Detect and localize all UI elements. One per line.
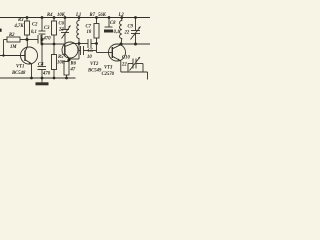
- resistor R2: [3, 40, 5, 56]
- wire top supply rail: [0, 17, 150, 19]
- resistor R5: [53, 44, 55, 55]
- capacitor C7: [87, 39, 89, 48]
- svg-text:56K: 56K: [98, 13, 107, 18]
- svg-text:4,7K: 4,7K: [14, 24, 25, 29]
- svg-text:10: 10: [87, 30, 92, 35]
- resistor R7: [96, 18, 98, 24]
- svg-text:R2: R2: [9, 33, 15, 38]
- svg-text:C2: C2: [32, 23, 38, 28]
- capacitor C3: [41, 18, 43, 32]
- svg-text:L2: L2: [118, 13, 125, 18]
- svg-text:R6: R6: [71, 62, 77, 67]
- wire VT2 collector line: [73, 43, 88, 45]
- resistor R4: [53, 18, 55, 22]
- edge text tick: [0, 29, 2, 32]
- svg-text:C2570: C2570: [102, 72, 115, 77]
- capacitor C5: [79, 50, 81, 52]
- svg-text:0,1: 0,1: [31, 30, 37, 35]
- trimmer capacitor C9: [135, 18, 137, 31]
- trimmer capacitor C6: [64, 18, 66, 30]
- svg-text:BC548: BC548: [11, 71, 26, 76]
- inductor L2: [120, 18, 122, 45]
- svg-text:BC549: BC549: [87, 68, 102, 73]
- resistor R6: [67, 60, 70, 61]
- svg-text:10: 10: [87, 55, 92, 60]
- svg-text:47: 47: [70, 68, 76, 73]
- wire VT3 emitter to output corner: [121, 71, 148, 73]
- svg-text:C7: C7: [86, 25, 92, 30]
- svg-text:L1: L1: [75, 13, 81, 18]
- wire R7/C7/C5 node to VT3 base: [96, 44, 98, 53]
- svg-text:C9: C9: [128, 25, 134, 30]
- svg-text:R4: R4: [47, 13, 53, 18]
- svg-text:0,1: 0,1: [114, 30, 120, 35]
- wire VT2 base line: [42, 43, 65, 45]
- capacitor C4: [38, 66, 47, 68]
- svg-text:VT2: VT2: [90, 62, 99, 67]
- transistor VT2: [62, 42, 78, 58]
- inductor L1: [77, 18, 79, 44]
- svg-text:C6: C6: [59, 22, 65, 27]
- svg-text:C4: C4: [38, 63, 44, 68]
- svg-text:C5: C5: [88, 49, 94, 54]
- svg-text:22: 22: [121, 63, 127, 68]
- trimmer capacitor C10: [128, 63, 133, 65]
- svg-text:470: 470: [42, 72, 51, 77]
- capacitor C8 with ground: [108, 18, 110, 28]
- svg-text:VT1: VT1: [16, 65, 24, 70]
- svg-text:22: 22: [124, 31, 130, 36]
- transistor VT1: [21, 47, 38, 64]
- svg-text:10K: 10K: [57, 61, 66, 66]
- wire C5 feedback branch: [78, 44, 80, 60]
- wire C3 bottom to base line and C4: [41, 34, 43, 67]
- capacitor C2: [27, 39, 38, 41]
- svg-text:1M: 1M: [10, 45, 17, 50]
- wire VT3 collector tank line: [121, 43, 150, 45]
- svg-text:C10: C10: [122, 56, 130, 61]
- svg-text:10K: 10K: [57, 13, 66, 18]
- svg-text:VT3: VT3: [104, 66, 113, 71]
- wire input/base line VT1: [0, 55, 25, 57]
- svg-text:C3: C3: [44, 26, 50, 31]
- svg-text:R7: R7: [90, 13, 96, 18]
- wire bottom ground rail: [0, 77, 76, 79]
- transistor VT3: [109, 44, 126, 61]
- junction dots: [2, 16, 137, 79]
- ground symbol: [41, 78, 43, 82]
- svg-text:R3: R3: [18, 18, 24, 23]
- svg-text:22: 22: [58, 28, 64, 33]
- svg-text:R5: R5: [58, 55, 64, 60]
- svg-text:470: 470: [43, 37, 52, 42]
- resistor R3: [26, 18, 28, 22]
- svg-text:C8: C8: [110, 21, 116, 26]
